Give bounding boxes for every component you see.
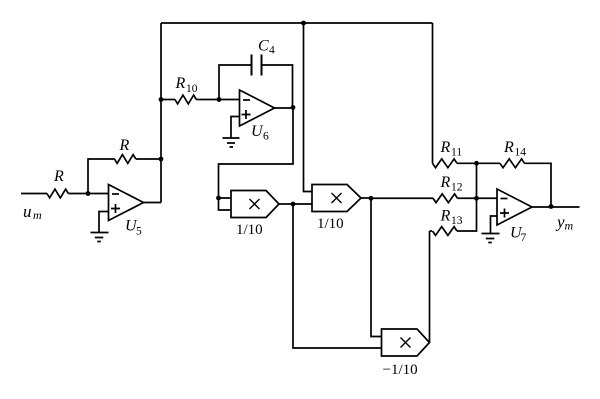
svg-text:R: R — [440, 208, 451, 225]
node mult2 output — [369, 196, 374, 201]
multiplier 1 cross — [250, 199, 260, 209]
label R input — [53, 168, 64, 185]
wire feedback up from node — [88, 159, 115, 194]
wire mult1 out down to mult3 lower input — [293, 204, 382, 348]
svg-text:R: R — [503, 139, 514, 156]
label um — [23, 202, 42, 222]
op-amp U7 triangle — [497, 189, 532, 225]
wire input um line — [21, 193, 47, 195]
svg-text:R: R — [440, 174, 451, 191]
resistor R11 — [433, 159, 458, 168]
wire rail drop to mult2 upper input — [304, 23, 313, 192]
label U5 — [125, 218, 142, 238]
node U6 input — [217, 97, 222, 102]
wire U6 output — [275, 107, 294, 109]
label ym — [555, 212, 574, 232]
ground U7 — [482, 234, 500, 243]
wire mult1 node to mult2 lower input — [293, 203, 312, 205]
svg-text:R: R — [53, 168, 64, 185]
svg-text:y: y — [555, 212, 565, 231]
node U6 output — [291, 105, 296, 110]
wire mult2 node down to mult3 upper input — [371, 198, 382, 336]
wire top rail — [161, 22, 433, 24]
svg-text:1/10: 1/10 — [317, 216, 344, 232]
label R14 — [503, 139, 526, 159]
svg-text:12: 12 — [451, 182, 463, 194]
svg-text:13: 13 — [451, 215, 463, 227]
label U7 — [510, 225, 527, 245]
wire C4 right branch — [262, 65, 293, 108]
wire mult3 output up to R13 — [429, 231, 431, 343]
resistor R (input) — [47, 189, 68, 198]
node top rail — [301, 21, 306, 26]
svg-text:6: 6 — [263, 131, 269, 143]
svg-text:R: R — [119, 137, 130, 154]
label -1/10 — [383, 362, 418, 378]
wire R14 lead — [477, 162, 501, 164]
wire rail right drop to R11 — [432, 23, 434, 163]
multiplier block 1/10 second — [312, 185, 361, 212]
svg-text:C: C — [258, 38, 269, 55]
node U7 output — [549, 204, 554, 209]
resistor R12 — [433, 194, 458, 203]
label R10 — [175, 75, 198, 95]
node R10 tap — [159, 97, 164, 102]
wire R14 right down to output — [525, 163, 552, 206]
wire R10 to U6 minus — [196, 99, 239, 101]
wire U7 plus to ground — [491, 216, 498, 234]
multiplier block 1/10 first — [231, 191, 279, 218]
multiplier 2 cross — [332, 193, 342, 203]
ground U6 — [223, 138, 240, 147]
resistor R (feedback) — [115, 155, 136, 164]
op-amp U6 minus sign — [243, 99, 250, 101]
op-amp U7 minus sign — [501, 198, 508, 200]
wire R11 to node — [457, 162, 477, 164]
svg-text:−1/10: −1/10 — [383, 362, 418, 378]
svg-text:m: m — [33, 208, 42, 222]
wire U7 output ym — [532, 206, 580, 208]
wire R12 to node — [458, 197, 498, 199]
wire U5 plus to ground — [99, 212, 109, 233]
op-amp U5 triangle — [109, 185, 144, 221]
wire input node to U5 minus — [68, 193, 108, 195]
svg-text:R: R — [440, 139, 451, 156]
svg-text:7: 7 — [521, 232, 527, 244]
node N2 feedback — [159, 157, 164, 162]
svg-text:R: R — [175, 75, 186, 92]
resistor R13 — [433, 227, 458, 236]
wire mult2 output — [361, 197, 371, 199]
wire R13 right up to summing node — [457, 163, 477, 231]
op-amp U7 plus sign — [500, 209, 509, 218]
svg-text:m: m — [565, 219, 574, 233]
label U6 — [251, 123, 269, 143]
node mult1 output — [291, 202, 296, 207]
node input — [86, 191, 91, 196]
op-amp U5 plus sign — [111, 204, 120, 213]
ground U5 — [91, 233, 109, 242]
svg-text:1/10: 1/10 — [236, 222, 263, 238]
op-amp U6 triangle — [240, 90, 275, 126]
wire R10 lead left — [161, 99, 175, 101]
multiplier block -1/10 — [382, 329, 430, 356]
label R11 — [440, 139, 463, 159]
svg-text:u: u — [23, 202, 32, 221]
wire U5 output to vertical — [144, 202, 162, 204]
resistor R10 — [175, 95, 196, 104]
wire left vertical x161 — [160, 23, 162, 203]
svg-text:14: 14 — [515, 147, 527, 159]
node summing — [474, 196, 479, 201]
label R13 — [440, 208, 463, 228]
resistor R14 — [500, 159, 525, 168]
wire feedback to node N2 — [136, 158, 161, 160]
wire mult2 out to R12 — [371, 197, 433, 199]
label 1/10 second — [317, 216, 344, 232]
wire R13 left corner — [430, 230, 433, 232]
node mult1 input — [216, 196, 221, 201]
label 1/10 first — [236, 222, 263, 238]
svg-text:5: 5 — [136, 226, 142, 238]
wire C4 left branch — [219, 65, 252, 100]
multiplier 3 cross — [401, 338, 411, 348]
op-amp U6 plus sign — [242, 110, 251, 119]
node R11 R14 — [474, 161, 479, 166]
wire U6 plus to ground — [231, 117, 240, 139]
label C4 — [258, 38, 275, 57]
capacitor C4 — [252, 55, 262, 76]
svg-text:11: 11 — [451, 147, 462, 159]
wire mult1 output — [279, 203, 293, 205]
label R12 — [440, 174, 463, 194]
op-amp U5 minus sign — [112, 193, 119, 195]
wire mult1 input stubs — [219, 198, 232, 210]
label R feedback — [119, 137, 130, 154]
svg-text:4: 4 — [269, 45, 275, 57]
wire U6 out down and left to mult1 — [219, 108, 294, 199]
svg-text:10: 10 — [186, 83, 198, 95]
